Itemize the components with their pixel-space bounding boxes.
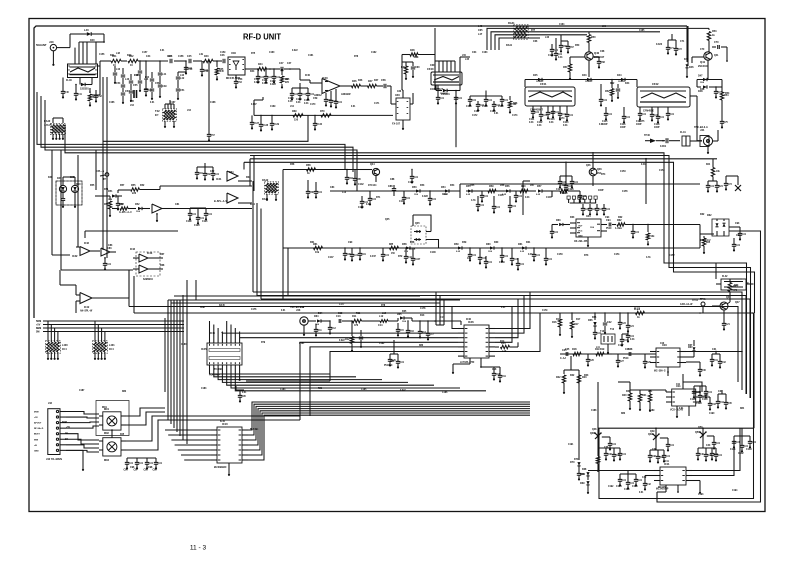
svg-text:C110: C110 (498, 106, 504, 108)
limiter diodes D62 (700, 214, 729, 248)
svg-text:D62: D62 (700, 214, 705, 216)
svg-text:C13: C13 (336, 315, 341, 318)
svg-text:1SS307: 1SS307 (618, 81, 626, 83)
svg-text:R×4: R×4 (109, 348, 114, 351)
svg-text:0.022: 0.022 (422, 196, 429, 198)
svg-text:C93: C93 (735, 223, 740, 225)
transistor Q46 (589, 152, 602, 186)
svg-text:R16: R16 (556, 319, 561, 321)
wire vertical bundle (165, 280, 187, 444)
svg-text:L43: L43 (125, 78, 130, 81)
svg-text:L42: L42 (180, 74, 185, 77)
svg-text:D48: D48 (700, 88, 705, 91)
svg-text:0.01: 0.01 (525, 197, 530, 199)
capacitor C70 (712, 41, 728, 62)
resistor R19 (595, 348, 612, 356)
svg-text:R43: R43 (204, 55, 209, 58)
cluster carrier mid (618, 330, 635, 347)
svg-text:D53: D53 (420, 185, 425, 187)
transistor Q44 (360, 163, 380, 187)
svg-text:C157: C157 (142, 52, 148, 54)
svg-text:C170: C170 (310, 104, 316, 106)
svg-text:CFM455E: CFM455E (643, 110, 654, 113)
svg-text:P40: P40 (580, 198, 585, 201)
svg-text:0.01: 0.01 (582, 196, 587, 198)
wire lower bus E (134, 312, 700, 314)
svg-text:C88: C88 (388, 185, 393, 188)
capacitor C48 (144, 61, 153, 97)
svg-text:0.01: 0.01 (670, 114, 675, 116)
resistor under D62 (702, 236, 711, 254)
title RF-D UNIT (243, 32, 282, 42)
resistor R49 (401, 62, 408, 80)
svg-text:RA42: RA42 (262, 179, 269, 182)
svg-text:C159: C159 (220, 52, 226, 54)
svg-text:C14: C14 (378, 324, 383, 327)
svg-text:150: 150 (294, 119, 299, 122)
svg-text:0.022: 0.022 (262, 83, 269, 85)
svg-text:0.001: 0.001 (660, 145, 667, 148)
capacitor C74 (660, 138, 680, 148)
svg-text:R21: R21 (648, 391, 653, 393)
svg-text:0.01: 0.01 (494, 113, 499, 115)
cluster Q40 left caps (548, 38, 563, 61)
capacitor C84 (345, 169, 354, 185)
svg-text:0.01: 0.01 (569, 115, 574, 117)
svg-text:P5JC: P5JC (606, 228, 612, 230)
resistor R58 (306, 164, 316, 175)
svg-text:R50: R50 (575, 45, 580, 47)
svg-text:D65: D65 (402, 311, 407, 313)
svg-text:0.01: 0.01 (496, 207, 501, 209)
svg-text:R13: R13 (420, 315, 425, 317)
IC49 left diodes (580, 471, 654, 494)
capacitor C85 (353, 170, 362, 186)
svg-text:R62: R62 (618, 217, 623, 219)
svg-text:0.01: 0.01 (208, 214, 213, 216)
svg-text:0.01: 0.01 (129, 463, 134, 465)
svg-text:RA41: RA41 (508, 21, 515, 25)
svg-text:C140: C140 (317, 123, 323, 126)
capacitor C52 (200, 61, 209, 77)
inductor L12 (372, 315, 398, 327)
svg-text:1SS301: 1SS301 (440, 93, 448, 95)
svg-text:C183: C183 (201, 388, 207, 390)
svg-text:C123: C123 (358, 207, 364, 209)
svg-text:C187: C187 (79, 390, 85, 392)
wire opamp302 feed (60, 270, 129, 298)
svg-text:R72: R72 (398, 256, 403, 258)
svg-text:L12: L12 (379, 315, 384, 318)
svg-text:C172: C172 (472, 115, 478, 117)
svg-text:D64: D64 (318, 312, 323, 315)
cluster under IC49 (616, 471, 643, 492)
labels det diode values (108, 81, 705, 326)
wire antenna to filter (57, 47, 70, 49)
transistor Q42 small (686, 26, 695, 78)
resistor R51 (563, 64, 572, 80)
capacitor C41 (74, 84, 83, 101)
svg-text:BU4094: BU4094 (250, 428, 259, 431)
wire CF40 out (436, 85, 442, 91)
test point TP42 (680, 299, 705, 313)
transistor Q50 group (695, 427, 723, 461)
svg-text:IC11: IC11 (664, 461, 670, 463)
components det right (466, 185, 552, 202)
wire Q40 base (570, 57, 585, 64)
svg-text:C36: C36 (604, 447, 609, 449)
connector J42 (34, 409, 66, 461)
svg-text:C112: C112 (537, 122, 543, 124)
svg-text:C177: C177 (339, 304, 345, 306)
svg-text:R45: R45 (219, 68, 224, 71)
wire long vertical to PLL (434, 28, 436, 90)
svg-text:C107: C107 (474, 111, 480, 113)
svg-text:J42: J42 (48, 402, 53, 405)
svg-text:NJM2904: NJM2904 (143, 278, 153, 281)
VCO2 resistors (622, 390, 666, 412)
svg-text:0.01: 0.01 (310, 94, 315, 96)
svg-text:0.01: 0.01 (537, 125, 542, 127)
svg-text:100P: 100P (636, 124, 642, 126)
svg-text:C59: C59 (313, 98, 318, 100)
svg-text:L42: L42 (180, 77, 185, 80)
wire FL42 feed (715, 263, 717, 279)
capacitor C25 (560, 349, 568, 360)
capacitor C62 (454, 90, 463, 105)
buffer IC41b (216, 171, 252, 181)
capacitor C66 (559, 41, 568, 53)
svg-text:D57: D57 (537, 185, 542, 188)
connector J40 ANT (36, 40, 57, 51)
svg-text:L400: L400 (62, 344, 68, 347)
capacitor C47 (279, 62, 300, 71)
resistor R56 (104, 196, 112, 217)
resistor R46 (352, 80, 369, 88)
wire left col bottom (556, 370, 587, 455)
svg-text:MX2: MX2 (104, 433, 110, 435)
svg-text:C18: C18 (492, 369, 497, 371)
svg-text:100P: 100P (598, 190, 604, 192)
svg-text:R47: R47 (374, 79, 379, 82)
svg-text:0.01: 0.01 (458, 98, 463, 100)
svg-text:0.01: 0.01 (635, 232, 640, 234)
svg-text:TNC-BJ-3-A: TNC-BJ-3-A (694, 126, 708, 129)
svg-text:1SS: 1SS (108, 199, 113, 201)
svg-text:R44: R44 (258, 63, 263, 66)
svg-text:220: 220 (132, 192, 137, 195)
capacitor C53 (234, 75, 243, 89)
svg-text:R68: R68 (160, 265, 165, 267)
svg-text:C119: C119 (186, 221, 192, 223)
row2 mid caps (484, 256, 525, 271)
svg-text:C101: C101 (262, 80, 268, 82)
svg-text:C81: C81 (175, 204, 180, 206)
svg-text:0.01: 0.01 (666, 456, 671, 458)
resistor network RA44 (92, 321, 115, 360)
svg-text:C188: C188 (591, 410, 597, 412)
svg-text:FL41: FL41 (680, 131, 686, 134)
inductor L41 cluster (158, 61, 167, 98)
svg-text:T10: T10 (610, 329, 615, 331)
svg-text:C60: C60 (430, 65, 435, 67)
VCO2 caps right (701, 390, 732, 411)
bias feed R48 (402, 49, 435, 94)
svg-text:R49: R49 (401, 66, 406, 69)
svg-text:R12: R12 (345, 338, 350, 341)
cluster under CF41 (529, 106, 574, 127)
wire mid bus L4 (45, 100, 357, 191)
svg-text:Q41: Q41 (700, 60, 706, 64)
wire to IC46 (412, 320, 461, 322)
svg-text:D44: D44 (625, 82, 630, 85)
svg-text:MC145: MC145 (658, 486, 666, 489)
svg-text:0.01: 0.01 (558, 57, 563, 59)
svg-text:C71: C71 (680, 41, 685, 43)
wire bias (402, 61, 413, 63)
IC46 bottom caps (452, 358, 507, 383)
svg-text:C190: C190 (709, 413, 715, 415)
resistor R53 (707, 28, 717, 52)
svg-text:0.01: 0.01 (536, 255, 541, 257)
wire det drop 1 (283, 248, 288, 300)
svg-text:4−6EΩ: 4−6EΩ (615, 227, 622, 230)
svg-text:0.01: 0.01 (603, 100, 608, 102)
svg-text:+5V: +5V (34, 417, 38, 419)
svg-text:RA45: RA45 (219, 304, 225, 307)
labels bottom extra (62, 304, 745, 496)
svg-text:C51: C51 (180, 89, 185, 92)
IC47 support parts (667, 340, 706, 377)
svg-text:C143: C143 (399, 200, 405, 203)
cap C28 (623, 348, 640, 360)
svg-text:L45: L45 (465, 58, 470, 61)
svg-text:0.01: 0.01 (736, 442, 741, 444)
mixer IC46 (458, 320, 495, 364)
svg-text:0.01: 0.01 (660, 117, 665, 119)
wire CF40 drop to bus (455, 96, 457, 147)
svg-text:C45: C45 (187, 55, 192, 58)
svg-text:Q48: Q48 (592, 428, 597, 431)
capacitor C88 (388, 185, 396, 196)
IC49 right wires (692, 428, 740, 494)
input caps (314, 320, 337, 336)
wire IC46 top feeds (436, 292, 444, 325)
svg-text:C93: C93 (736, 234, 741, 237)
diode D41 (80, 78, 92, 91)
svg-text:TP41: TP41 (700, 298, 706, 301)
svg-text:0.01: 0.01 (608, 114, 613, 116)
svg-text:Q47: Q47 (735, 301, 740, 304)
svg-text:0.01: 0.01 (281, 310, 286, 312)
svg-text:0.01: 0.01 (742, 234, 747, 236)
diode D58 (402, 243, 410, 250)
transistor Q48 group (590, 428, 617, 450)
svg-text:2SC4047: 2SC4047 (698, 65, 709, 68)
VCO2 wire top (618, 374, 702, 392)
svg-text:R22: R22 (556, 376, 561, 379)
resistor R11 (352, 315, 372, 327)
svg-text:C118: C118 (654, 124, 660, 126)
svg-text:R73: R73 (584, 255, 589, 257)
wire left vertical risers (103, 77, 107, 258)
resistor R18 (572, 348, 581, 356)
cluster right PLL A (690, 386, 713, 405)
svg-text:C132: C132 (738, 453, 744, 455)
svg-text:L401: L401 (109, 344, 115, 347)
capacitor C50 (184, 60, 193, 74)
svg-text:CR−293−455: CR−293−455 (574, 240, 588, 243)
svg-text:R51: R51 (563, 66, 568, 69)
svg-text:C103: C103 (288, 98, 294, 100)
svg-text:C151: C151 (614, 254, 620, 256)
svg-text:Q47: Q47 (726, 296, 731, 299)
svg-text:D70: D70 (570, 461, 575, 464)
svg-text:220: 220 (285, 82, 290, 84)
svg-text:C179: C179 (542, 310, 548, 312)
wire det corner 523 (523, 181, 530, 215)
test point TP40 (644, 134, 663, 143)
svg-text:D46: D46 (684, 58, 689, 61)
resistor R43 (203, 55, 222, 63)
svg-text:J40: J40 (49, 40, 54, 44)
svg-text:C134: C134 (616, 485, 622, 488)
svg-text:R22: R22 (570, 375, 575, 377)
svg-text:TP40: TP40 (644, 134, 650, 137)
svg-text:C163: C163 (482, 52, 488, 54)
svg-text:C115: C115 (602, 121, 608, 123)
svg-text:C94: C94 (605, 216, 610, 219)
svg-text:C168: C168 (210, 102, 216, 104)
svg-text:C167: C167 (170, 102, 176, 104)
svg-text:0.01: 0.01 (752, 442, 757, 444)
wire lower bus A (253, 292, 742, 390)
svg-text:C28: C28 (628, 349, 633, 351)
svg-text:D65: D65 (397, 313, 402, 316)
svg-text:C122: C122 (408, 182, 414, 184)
IF chain row (330, 190, 460, 192)
svg-text:IC42: IC42 (72, 254, 78, 258)
svg-text:BY: BY (65, 439, 69, 441)
svg-text:R×4: R×4 (62, 348, 67, 351)
svg-text:C191: C191 (568, 444, 574, 446)
svg-text:0.01: 0.01 (630, 483, 635, 485)
resistor R45 (215, 61, 224, 81)
svg-text:BUSY: BUSY (34, 434, 40, 436)
svg-text:CF42: CF42 (652, 82, 659, 86)
svg-text:R41: R41 (110, 54, 115, 57)
IC49 bottom (657, 485, 679, 499)
svg-text:0.01: 0.01 (385, 255, 390, 257)
svg-text:0.01: 0.01 (288, 101, 293, 103)
wire IC10 right bundle (248, 402, 530, 460)
resistor R40 (88, 88, 97, 107)
svg-text:0.01: 0.01 (630, 339, 635, 341)
ceramic filter CF40 (427, 67, 462, 91)
svg-text:CF40: CF40 (427, 67, 434, 71)
svg-text:R62: R62 (617, 219, 622, 222)
svg-text:R14: R14 (500, 340, 505, 343)
svg-text:D58: D58 (410, 242, 415, 244)
svg-text:0.01: 0.01 (554, 232, 559, 234)
svg-text:IC41: IC41 (216, 177, 222, 181)
resistor R55 (131, 184, 161, 195)
labels det extra (328, 164, 675, 264)
wire bias line 428 (598, 313, 754, 428)
svg-text:MX2: MX2 (104, 459, 110, 462)
svg-text:5RM: 5RM (62, 422, 67, 424)
svg-text:R11: R11 (356, 313, 361, 315)
cluster det right end (556, 162, 579, 196)
svg-text:0.01: 0.01 (484, 196, 489, 198)
svg-text:C22: C22 (607, 321, 612, 324)
svg-text:1SS: 1SS (414, 194, 419, 196)
svg-text:Q49: Q49 (650, 430, 655, 433)
svg-text:0.01: 0.01 (406, 198, 411, 200)
svg-text:0.01: 0.01 (501, 307, 506, 309)
svg-text:C128: C128 (690, 399, 696, 401)
svg-text:C38: C38 (652, 449, 657, 451)
svg-text:C96: C96 (130, 467, 135, 469)
svg-text:R16: R16 (552, 321, 557, 324)
svg-text:C58: C58 (381, 79, 386, 82)
coil L45 (130, 90, 137, 103)
svg-text:Q50: Q50 (698, 427, 703, 429)
svg-text:A−3PL−A−C: A−3PL−A−C (119, 211, 132, 214)
svg-text:C162: C162 (371, 52, 377, 54)
resistor R47 (368, 80, 384, 88)
diode row 1 (412, 186, 449, 193)
ceramic filter CF41 (525, 80, 575, 112)
svg-text:1SS: 1SS (488, 251, 493, 253)
capacitor C40 (61, 78, 70, 99)
capacitor C45 (187, 55, 202, 63)
svg-text:10k: 10k (467, 258, 472, 260)
svg-text:D61: D61 (518, 243, 523, 246)
wire det net (697, 80, 722, 88)
svg-text:IC10: IC10 (220, 421, 226, 423)
transistor Q40 (585, 51, 605, 60)
inner margin line top (34, 26, 687, 318)
svg-text:C193: C193 (698, 494, 704, 496)
svg-text:L41: L41 (162, 73, 167, 76)
svg-text:C180: C180 (181, 344, 187, 346)
svg-text:Q44: Q44 (370, 163, 375, 166)
svg-text:R18: R18 (572, 348, 577, 351)
svg-text:C125: C125 (562, 193, 568, 195)
svg-text:L13: L13 (342, 192, 347, 194)
svg-text:C138: C138 (263, 125, 269, 127)
wire carrier line (560, 312, 754, 314)
svg-text:D63: D63 (556, 219, 561, 222)
svg-text:0.01: 0.01 (641, 164, 646, 166)
cluster above IC44 (581, 204, 611, 215)
resistor R63 (727, 279, 742, 304)
connector J43 (290, 306, 316, 336)
svg-text:C127: C127 (618, 345, 624, 347)
wire mid bus L2 (37, 92, 345, 170)
VCO IC47 (650, 343, 686, 373)
svg-text:AN612: AN612 (314, 94, 322, 97)
cluster topchain A (254, 68, 290, 88)
svg-text:D61: D61 (526, 242, 531, 244)
svg-text:RA42: RA42 (262, 198, 269, 201)
svg-text:1SS: 1SS (315, 324, 320, 326)
svg-text:R23: R23 (584, 375, 589, 377)
wire det row 2 (283, 247, 700, 249)
svg-text:C142: C142 (358, 183, 364, 186)
svg-text:0.01: 0.01 (488, 262, 493, 264)
